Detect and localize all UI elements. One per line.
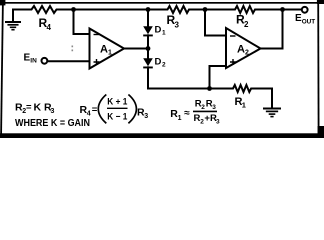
svg-text:1: 1	[178, 115, 182, 122]
svg-text:2: 2	[244, 20, 249, 29]
svg-text:3: 3	[216, 118, 220, 125]
svg-text:WHERE K = GAIN: WHERE K = GAIN	[15, 118, 90, 129]
svg-text:3: 3	[212, 104, 216, 111]
svg-text:4: 4	[47, 23, 52, 32]
svg-text:4: 4	[87, 111, 91, 118]
svg-text:3: 3	[175, 21, 180, 30]
svg-text:K − 1: K − 1	[107, 111, 128, 122]
svg-text:A: A	[237, 44, 245, 56]
svg-text:=: =	[26, 102, 32, 113]
svg-text:A: A	[100, 44, 108, 56]
svg-text:1: 1	[108, 50, 112, 57]
svg-text:K R: K R	[34, 101, 53, 113]
svg-text:=: =	[92, 104, 98, 115]
svg-text:K + 1: K + 1	[107, 96, 128, 107]
svg-text:2: 2	[245, 50, 249, 57]
svg-text:D: D	[155, 25, 162, 36]
svg-text:2: 2	[162, 62, 166, 69]
svg-text:1: 1	[162, 30, 166, 37]
svg-text:≈: ≈	[184, 108, 190, 119]
svg-text:1: 1	[242, 101, 246, 110]
svg-text:3: 3	[51, 108, 55, 115]
svg-text:3: 3	[144, 113, 148, 120]
svg-text:IN: IN	[30, 57, 37, 64]
svg-text:D: D	[155, 57, 162, 68]
svg-text:OUT: OUT	[302, 19, 316, 26]
svg-text:2: 2	[201, 104, 205, 111]
